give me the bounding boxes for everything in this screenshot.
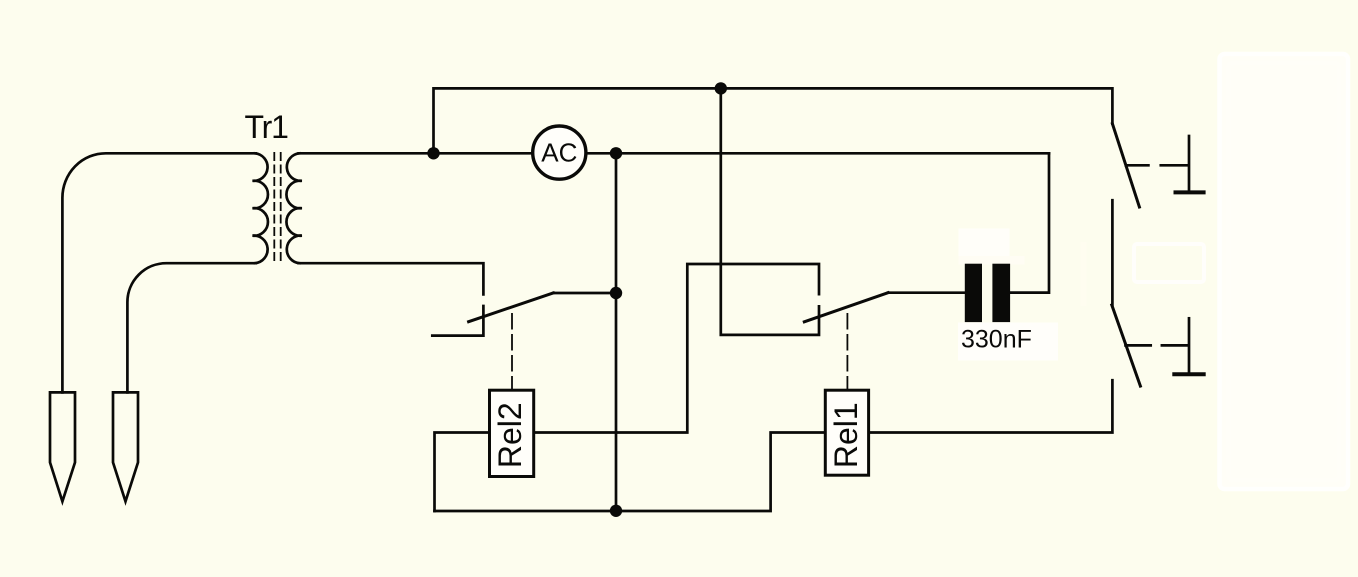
svg-text:Rel2: Rel2: [492, 402, 528, 468]
svg-text:Tr1: Tr1: [245, 109, 289, 145]
svg-text:Rel1: Rel1: [828, 402, 864, 468]
svg-text:AC: AC: [541, 137, 577, 167]
svg-text:330nF: 330nF: [961, 326, 1032, 354]
